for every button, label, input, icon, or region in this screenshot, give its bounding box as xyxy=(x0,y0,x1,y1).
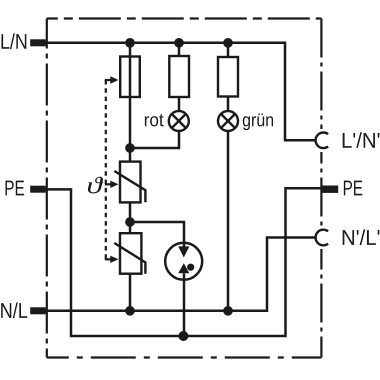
white mask over border at terminal N'/L' xyxy=(312,226,332,249)
resistor R2 (green lamp series) xyxy=(218,57,238,97)
wire varistor2 bottom lead to N/L bus xyxy=(129,274,132,311)
enclosure dashed border top side xyxy=(47,17,322,19)
varistor RV1 diagonal stroke with foot xyxy=(114,171,145,202)
spark gap / arrester circle xyxy=(165,243,202,280)
thermal disconnect dashed sense line xyxy=(105,80,107,259)
wire fuse branch through-conductor x=130 xyxy=(129,43,132,148)
junction node varistor2 on N/L bus (130,310) xyxy=(125,306,135,316)
enclosure dashed border left side xyxy=(46,19,48,358)
wire red lamp upper lead from resistor R1 xyxy=(178,97,181,112)
thermal dashed line middle branch to varistor1 xyxy=(105,183,111,185)
white mask over border at terminal L'/N' xyxy=(312,129,332,152)
resistor R1 (red lamp series) xyxy=(169,56,189,97)
wire varistor2 top lead xyxy=(129,222,132,233)
spark gap down arrowhead xyxy=(178,246,189,257)
terminal N'/L' output arc xyxy=(316,230,329,246)
wire N/L bus from terminal to N'/L' output xyxy=(38,238,315,311)
spark gap side dot xyxy=(187,264,194,271)
wire green lamp upper lead from resistor R2 xyxy=(227,96,230,112)
label N'/L' xyxy=(343,229,380,245)
label L'/N' xyxy=(343,132,380,148)
wire green lamp bottom lead down to N/L bus xyxy=(227,132,230,311)
terminal PE left black pad xyxy=(30,186,46,193)
wire L/N bus from terminal to L'/N' output xyxy=(38,43,315,141)
junction node fuse/lamp/varistor1 (130,148) xyxy=(125,143,135,153)
spark gap up arrowhead xyxy=(178,263,189,273)
varistor RV1 body xyxy=(120,162,141,203)
label gruen (green) xyxy=(243,113,273,130)
thermal dashed line bottom bend to varistor2 xyxy=(105,258,111,260)
varistor RV2 body xyxy=(120,233,141,274)
junction node spark gap on PE bus (183.7,334) xyxy=(178,331,188,341)
enclosure dashed border right side xyxy=(320,19,322,358)
terminal N/L black pad xyxy=(30,307,46,314)
junction node green lamp on N/L bus (228,310) xyxy=(223,306,233,316)
label N/L xyxy=(1,302,27,318)
varistor RV2 diagonal stroke with foot xyxy=(114,243,145,274)
wire green lamp branch top lead xyxy=(227,43,230,57)
thermal arrow into varistor2 xyxy=(110,256,118,263)
fuse F (thermal disconnect) rectangle xyxy=(120,57,140,98)
terminal PE right black pad xyxy=(321,186,338,193)
label PE left xyxy=(5,181,24,196)
terminal L/N black pad xyxy=(30,39,46,46)
junction node on L/N bus at red lamp column xyxy=(174,38,184,48)
label theta thermal symbol xyxy=(88,177,103,194)
label L/N xyxy=(1,33,26,49)
thermal arrow into fuse xyxy=(110,76,118,83)
wire spark gap bottom lead to PE bus xyxy=(183,273,186,336)
junction node varistor1/varistor2/spark gap (130,222) xyxy=(125,217,135,227)
enclosure dashed border bottom side xyxy=(47,356,322,358)
wire varistor1 top lead xyxy=(129,148,132,162)
terminal L'/N' output arc xyxy=(316,133,329,149)
label rot (red) xyxy=(145,114,164,126)
wire PE bus from left PE terminal around bottom to right PE terminal xyxy=(38,188,322,336)
wire red lamp branch top lead xyxy=(178,43,181,56)
junction node on L/N bus at fuse column xyxy=(125,38,135,48)
thermal dashed line top bend to fuse xyxy=(105,79,111,81)
wire red lamp bottom lead to node at (130,148) xyxy=(130,132,179,148)
junction node on L/N bus at green lamp column xyxy=(223,38,233,48)
wire spark gap branch from node (130,222) xyxy=(130,222,184,247)
wire varistor1 bottom lead to node (130,222) xyxy=(129,202,132,222)
label PE right xyxy=(344,181,362,196)
indicator lamp red (circle with X) xyxy=(169,111,189,131)
indicator lamp green (circle with X) xyxy=(218,111,238,131)
thermal arrow into varistor1 xyxy=(110,181,118,188)
